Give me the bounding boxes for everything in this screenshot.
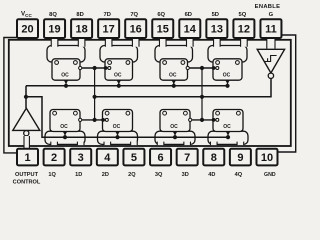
buffer U2 (enable, pin 11) with hysteresis <box>257 49 284 78</box>
pin 16 (7Q) <box>125 19 146 38</box>
svg-text:2D: 2D <box>102 172 109 178</box>
svg-text:7: 7 <box>184 152 190 164</box>
svg-text:OC: OC <box>114 73 122 79</box>
wire funnel below latch 4Q/4D <box>208 131 248 144</box>
svg-text:GND: GND <box>264 172 276 178</box>
enable riser between latch pairs 8/7 and 1/2 <box>94 68 96 120</box>
svg-text:8D: 8D <box>76 12 83 18</box>
junction enable chain / riser B bottom <box>200 118 204 122</box>
pin 2 (1Q) <box>44 149 65 166</box>
wire funnel below latch 3Q/3D <box>155 131 195 144</box>
svg-text:13: 13 <box>211 24 223 36</box>
wire from pin 11 around right side to pin 10 <box>278 35 296 152</box>
svg-text:1Q: 1Q <box>48 172 56 178</box>
svg-text:16: 16 <box>130 24 142 36</box>
wire stub pin 19 to latch <box>51 38 58 47</box>
pin 7 (3D) <box>177 149 198 166</box>
svg-text:7Q: 7Q <box>130 12 138 18</box>
enable chain wire, top pair 6-5 <box>188 67 214 69</box>
svg-text:4Q: 4Q <box>235 172 243 178</box>
pin 17 (7D) <box>98 19 119 38</box>
svg-text:11: 11 <box>265 24 277 36</box>
junction enable chain / riser A top <box>93 66 97 70</box>
pin 5 (2Q) <box>123 149 144 166</box>
latch 1 (pins 1D/1Q) <box>50 110 82 140</box>
svg-text:17: 17 <box>103 24 115 36</box>
pin 12 (5Q) <box>233 19 254 38</box>
svg-text:ENABLE: ENABLE <box>255 4 281 10</box>
latch 7 (pins 7D/7Q) <box>104 59 133 88</box>
latch 4 (pins 4D/4Q) <box>212 110 243 140</box>
svg-text:OC: OC <box>223 124 231 130</box>
svg-text:4: 4 <box>104 152 111 164</box>
wire funnel below latch 1Q/1D <box>45 131 85 144</box>
pin 8 (4D) <box>203 149 224 166</box>
pin 10 (GND) <box>256 149 277 166</box>
pin 18 (8D) <box>71 19 92 38</box>
svg-text:G: G <box>269 12 274 18</box>
wire funnel above latch 6Q/6D <box>155 46 193 63</box>
enable chain wire, bottom pair 3-4 <box>190 119 213 121</box>
wire stub pin 15 to latch <box>159 38 166 47</box>
svg-text:2: 2 <box>51 152 57 164</box>
wire stub pin 1 to inverter <box>24 136 29 149</box>
svg-text:OC: OC <box>170 124 178 130</box>
pin 11 (ENABLE G) <box>260 19 281 38</box>
pin 3 (1D) <box>70 149 91 166</box>
svg-text:15: 15 <box>157 24 169 36</box>
enable chain wire, top pair 8-7 <box>80 67 105 69</box>
svg-text:1D: 1D <box>75 172 82 178</box>
wire stub pin 13 to latch <box>214 38 221 47</box>
svg-text:OC: OC <box>113 124 121 130</box>
pin 20 (VCC) <box>17 19 38 38</box>
pin 13 (5D) <box>206 19 227 38</box>
wire funnel above latch 5Q/5D <box>208 46 247 63</box>
wire stub pin 6 to latch <box>157 142 164 146</box>
wire stub pin 11 to buffer <box>267 39 275 49</box>
pin 1 (OUTPUT CONTROL) <box>17 149 38 166</box>
svg-text:18: 18 <box>75 24 87 36</box>
svg-text:5Q: 5Q <box>239 12 247 18</box>
junction enable chain / riser A bottom <box>93 118 97 122</box>
wire stub pin 3 to latch <box>77 142 84 146</box>
svg-text:3Q: 3Q <box>155 172 163 178</box>
wire stub pin 7 to latch <box>184 142 191 146</box>
junction enable bus / riser A <box>93 95 97 99</box>
svg-text:7D: 7D <box>103 12 110 18</box>
pin 4 (2D) <box>97 149 118 166</box>
svg-text:14: 14 <box>184 24 197 36</box>
enable chain wire, bottom pair 1-2 <box>80 119 103 121</box>
svg-text:19: 19 <box>48 24 60 36</box>
wire from pin 20 around left side to pin 1 <box>4 38 17 153</box>
pin 14 (6D) <box>179 19 200 38</box>
enable bus from pin 11 buffer <box>95 79 271 97</box>
svg-text:3: 3 <box>78 152 84 164</box>
latch 3 (pins 3D/3Q) <box>160 110 192 140</box>
wire funnel above latch 7Q/7D <box>100 46 138 63</box>
pin 6 (3Q) <box>150 149 171 166</box>
svg-text:3D: 3D <box>182 172 189 178</box>
wire stub pin 18 to latch <box>78 38 85 47</box>
wire stub pin 2 to latch <box>51 142 58 146</box>
pin 15 (6Q) <box>152 19 173 38</box>
latch 2 (pins 2D/2Q) <box>101 110 132 140</box>
latch 6 (pins 6D/6Q) <box>160 59 189 88</box>
wire stub pin 16 to latch <box>132 38 139 47</box>
wire stub pin 5 to latch <box>131 142 138 146</box>
junction enable chain / riser B top <box>200 66 204 70</box>
wire stub pin 14 to latch <box>187 38 194 47</box>
svg-text:4D: 4D <box>208 172 215 178</box>
wire stub pin 9 to latch <box>237 142 244 146</box>
svg-text:OUTPUT: OUTPUT <box>15 172 39 178</box>
junction enable bus / riser B <box>200 95 204 99</box>
svg-text:9: 9 <box>237 152 243 164</box>
svg-text:6Q: 6Q <box>157 12 165 18</box>
wire funnel below latch 2Q/2D <box>98 131 138 144</box>
wire stub pin 8 to latch <box>210 142 217 146</box>
pin 9 (4Q) <box>230 149 251 166</box>
wire stub pin 17 to latch <box>105 38 112 47</box>
svg-text:12: 12 <box>238 24 250 36</box>
svg-text:5D: 5D <box>212 12 219 18</box>
svg-text:20: 20 <box>21 24 33 36</box>
svg-text:10: 10 <box>261 152 273 164</box>
wire stub pin 12 to latch <box>241 38 248 47</box>
svg-text:6: 6 <box>157 152 163 164</box>
junction output-control node <box>24 95 28 99</box>
svg-text:OC: OC <box>61 73 69 79</box>
svg-text:8: 8 <box>211 152 217 164</box>
latch 5 (pins 5D/5Q) <box>212 59 242 88</box>
IC body outline <box>9 40 291 146</box>
svg-text:OC: OC <box>169 73 177 79</box>
svg-text:CONTROL: CONTROL <box>13 180 41 186</box>
svg-text:2Q: 2Q <box>128 172 136 178</box>
latch 8 (pins 8D/8Q) <box>52 59 82 88</box>
svg-text:8Q: 8Q <box>49 12 57 18</box>
svg-text:OC: OC <box>223 73 231 79</box>
svg-text:OC: OC <box>60 124 68 130</box>
output-control bus (top row) <box>26 85 228 87</box>
enable riser between latch pairs 6/5 and 3/4 <box>201 68 203 120</box>
inverter U1 (output control, pin 1) <box>13 108 40 136</box>
wire funnel above latch 8Q/8D <box>47 46 85 63</box>
wire stub pin 4 to latch <box>104 142 111 146</box>
svg-text:6D: 6D <box>185 12 192 18</box>
pin 19 (8Q) <box>44 19 65 38</box>
svg-text:5: 5 <box>131 152 137 164</box>
svg-text:1: 1 <box>24 152 30 164</box>
output-control riser and branch <box>26 86 228 137</box>
